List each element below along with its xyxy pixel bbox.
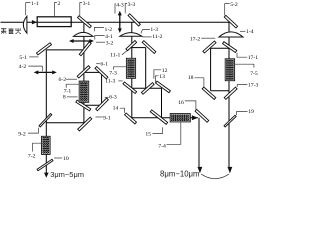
arrowhead on pump beam entering crystal 2 <box>32 20 37 24</box>
label 4-3 <box>115 2 124 13</box>
ring mirror 18 <box>202 87 216 99</box>
label 7-1 <box>64 84 79 95</box>
OPO crystal 7-5 <box>225 59 234 81</box>
translation arrow 4-2 <box>34 70 57 74</box>
mirror 3-3 <box>128 14 140 26</box>
label 14 <box>113 106 125 113</box>
svg-text:17-3: 17-3 <box>248 82 259 88</box>
ring mirror 17-1 <box>223 42 237 53</box>
fold mirror 16 <box>195 109 209 122</box>
svg-text:4-2: 4-2 <box>19 64 27 70</box>
svg-text:3-1: 3-1 <box>83 1 91 7</box>
ring mirror 8 <box>76 100 91 111</box>
svg-text:1-4: 1-4 <box>246 29 254 35</box>
svg-text:17-2: 17-2 <box>190 36 201 42</box>
wire: horizontal beam mirror 3-2 to mirror 5-1 <box>46 49 85 51</box>
label 3-3 <box>125 2 135 14</box>
ring mirror 6-3 <box>96 98 109 111</box>
svg-text:2: 2 <box>58 1 61 7</box>
label 19 <box>237 109 254 115</box>
label 2 <box>54 1 60 17</box>
svg-text:4-1: 4-1 <box>105 34 113 40</box>
svg-text:1-3: 1-3 <box>150 27 158 33</box>
OPO crystal 7-2 <box>42 136 51 154</box>
label 17-2 <box>190 36 216 42</box>
label 17-1 <box>237 53 258 61</box>
label 11-2 <box>143 34 163 40</box>
svg-text:7-5: 7-5 <box>250 71 258 77</box>
svg-text:6-2: 6-2 <box>59 77 67 83</box>
beamsplitter 9-2 <box>39 114 52 127</box>
label 5-2 <box>225 2 238 16</box>
label 7-2 <box>28 143 41 159</box>
svg-text:3-2: 3-2 <box>106 41 114 47</box>
wire: horizontal beam mirror 14 through 15 and crystal 7-4 to mirror 16 <box>132 117 198 119</box>
arrowhead on beam entering mirror 16 <box>192 115 198 120</box>
wire: vertical beam mirror 5-2 down through lens 1-4, mirror 17-1, crystal 7-5, 17-3, plate 19 to output <box>228 22 230 168</box>
ring mirror 6-2 <box>77 66 90 78</box>
label 4-2 <box>19 64 43 71</box>
wire: vertical beam mirror 13 down to mirror 15 <box>161 88 163 118</box>
svg-text:8μm−10μm: 8μm−10μm <box>160 169 200 178</box>
DFG crystal 7-4 <box>170 114 190 122</box>
lens 1-1 <box>23 16 27 33</box>
svg-text:10: 10 <box>63 156 69 162</box>
lens 1-2 <box>73 32 93 36</box>
wire: ring cavity 11 bottom arm and out to mirror 13 <box>132 87 162 89</box>
wire: ring cavity 6 right arm <box>101 72 103 105</box>
combiner mirror 15 <box>150 110 167 124</box>
wire: ring cavity 17 left arm <box>210 48 212 90</box>
label 7-4 <box>158 122 181 149</box>
wire: ring cavity 17 bottom arm <box>211 90 229 92</box>
ring mirror 11-2 <box>142 41 156 54</box>
wire: vertical beam from mirror 5-1 down through 4-2, 9-2, crystal 7-2, plate 10 to 3-5um output <box>45 50 47 174</box>
svg-text:7-3: 7-3 <box>109 70 117 76</box>
ring mirror 17-2 <box>203 41 216 53</box>
OPO crystal 7-3 <box>126 58 135 78</box>
wire: ring cavity 11 top arm <box>132 47 146 49</box>
wire: vertical beam from mirror 3-3 down through lens 1-3, ring 11, crystal 7-3 to mirror 14 <box>131 22 133 118</box>
translation arrow 4-1 <box>69 39 94 43</box>
plate 10 <box>37 159 53 170</box>
label 9-2 <box>18 128 38 138</box>
OPO crystal 7-1 <box>79 81 89 102</box>
arrowhead 8-10um right output down <box>228 167 233 174</box>
pump beam (top horizontal) <box>1 21 230 23</box>
mirror 3-1 <box>78 16 92 28</box>
translation arrow 4-3 <box>118 11 122 33</box>
label 3-2 <box>96 41 114 47</box>
ring mirror 11-1 <box>126 41 137 51</box>
svg-text:14: 14 <box>113 106 119 112</box>
label 1-4 <box>240 29 254 35</box>
fold mirror 14 <box>125 113 137 124</box>
ring mirror 6-1 <box>95 67 108 79</box>
laser crystal 2 <box>37 17 71 27</box>
label 1-2 <box>95 27 113 33</box>
label 7-3 <box>109 67 126 77</box>
label 11-1 <box>110 51 127 59</box>
wire: output beam mirror 16 down, 8-10um <box>198 118 200 168</box>
label 4-1 <box>95 34 113 40</box>
label 11-3 <box>105 79 123 85</box>
ring mirror 17-3 <box>224 87 237 99</box>
label 8 <box>63 95 78 101</box>
label 10 <box>54 156 69 162</box>
label 16 <box>178 100 196 110</box>
label 17-3 <box>237 82 258 88</box>
grouping arc under the two 8-10um output arrows <box>201 174 229 179</box>
svg-text:17-1: 17-1 <box>248 55 259 61</box>
wire: ring cavity 17 top arm <box>211 47 229 49</box>
wire: horizontal beam mirror 9-1 to mirror 9-2 <box>46 122 84 124</box>
label 3-1 <box>80 1 91 16</box>
wire: ring cavity 6 top arm <box>84 71 102 73</box>
svg-text:6-3: 6-3 <box>109 94 117 100</box>
label 13 <box>155 74 165 83</box>
mirror 5-2 <box>224 15 237 28</box>
svg-text:5-1: 5-1 <box>19 55 27 61</box>
label 15 <box>145 127 162 137</box>
svg-text:5-2: 5-2 <box>230 2 238 8</box>
svg-text:13: 13 <box>159 74 165 80</box>
label 9-1 <box>96 116 111 122</box>
mirror 5-1 <box>36 43 51 55</box>
svg-text:11-2: 11-2 <box>152 34 162 40</box>
beamsplitter 3-2 <box>79 42 91 56</box>
lens 1-3 <box>120 33 142 37</box>
label pump light (Chinese) <box>1 28 21 34</box>
ring mirror 12 <box>141 83 154 95</box>
label 6-1 <box>96 62 108 68</box>
svg-text:7-2: 7-2 <box>28 153 36 159</box>
label 1-1 <box>26 1 39 15</box>
label 1-3 <box>141 27 158 33</box>
svg-text:6-1: 6-1 <box>100 62 108 68</box>
svg-text:7-4: 7-4 <box>158 143 166 149</box>
fold mirror 9-1 <box>78 117 92 131</box>
svg-text:15: 15 <box>145 132 151 138</box>
svg-text:9-2: 9-2 <box>18 131 26 137</box>
svg-text:12: 12 <box>162 68 168 74</box>
svg-text:1-2: 1-2 <box>105 27 113 33</box>
svg-text:11-1: 11-1 <box>110 53 120 59</box>
wire: ring cavity 6 bottom arm <box>84 104 102 106</box>
label 7-5 <box>235 64 258 77</box>
label 6-2 <box>59 77 78 83</box>
svg-text:18: 18 <box>188 75 194 81</box>
plate 19 <box>224 115 236 127</box>
svg-text:1-1: 1-1 <box>31 1 39 7</box>
arrowhead 3-5um output down <box>44 173 49 178</box>
svg-text:19: 19 <box>248 109 254 115</box>
svg-text:4-3: 4-3 <box>116 2 124 8</box>
fold mirror 13 <box>156 81 171 93</box>
ring mirror 11-3 <box>123 82 137 94</box>
svg-text:3μm−5μm: 3μm−5μm <box>50 170 84 179</box>
wire: vertical beam from mirror 3-1 down through lens 1-2, 4-1, 3-2, ring 6, crystal 7-1, mirror 8 to mirror 9-1 <box>83 22 85 123</box>
svg-text:11-3: 11-3 <box>105 79 115 85</box>
label 18 <box>188 75 204 87</box>
label 6-3 <box>105 94 117 100</box>
svg-text:9-1: 9-1 <box>103 116 111 122</box>
label 5-1 <box>19 55 38 61</box>
label 12 <box>154 68 168 79</box>
svg-text:8: 8 <box>63 95 66 101</box>
svg-text:16: 16 <box>178 100 184 106</box>
svg-text:3-3: 3-3 <box>128 2 136 8</box>
lens 1-4 <box>219 32 243 37</box>
wire: ring cavity 11 right arm <box>145 48 147 89</box>
arrowhead 8-10um left output down <box>198 167 203 174</box>
